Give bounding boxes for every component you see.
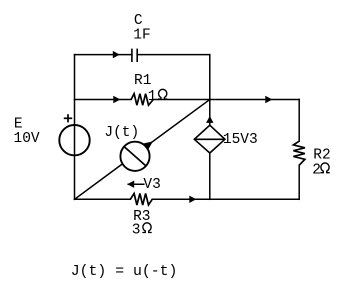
wire diagonal upper segment (current source to node A) bbox=[146, 100, 210, 147]
wire top rail right of capacitor bbox=[137, 54, 210, 56]
arrowhead top rail pointing right bbox=[113, 51, 120, 58]
wire left vertical (E branch) bbox=[74, 55, 76, 200]
arrowhead bottom rail pointing right bbox=[189, 196, 196, 203]
svg-text:V3: V3 bbox=[143, 177, 160, 193]
svg-text:1F: 1F bbox=[133, 27, 150, 43]
svg-text:J(t) = u(-t): J(t) = u(-t) bbox=[71, 264, 178, 280]
voltage source E plus sign bbox=[64, 114, 72, 122]
wire dependent source down to bottom rail bbox=[209, 153, 211, 199]
svg-text:J(t): J(t) bbox=[104, 125, 139, 141]
arrowhead dependent source branch pointing up bbox=[206, 116, 213, 123]
arrowhead rail to R2 pointing right bbox=[265, 96, 272, 103]
wire right vertical drop from top rail to node A bbox=[209, 55, 211, 100]
wire top rail left of capacitor bbox=[75, 54, 132, 56]
dependent source 15V3 diamond bbox=[194, 125, 225, 153]
svg-text:1: 1 bbox=[148, 89, 157, 105]
resistor R2 zigzag bbox=[293, 141, 305, 165]
wire diagonal lower segment (corner to current source) bbox=[75, 164, 123, 200]
V3 arrowhead pointing left bbox=[127, 181, 134, 188]
V3 arrow line bbox=[128, 183, 145, 185]
wire R1 rail right segment bbox=[153, 99, 210, 101]
wire right vertical below R2 bbox=[298, 165, 300, 199]
current source J(t) slash chord bbox=[124, 147, 146, 166]
wire right vertical above R2 bbox=[298, 100, 300, 142]
resistor R3 zigzag bbox=[130, 194, 152, 206]
wire bottom rail right of R3 bbox=[152, 198, 299, 200]
svg-text:10V: 10V bbox=[14, 131, 40, 147]
svg-text:15V3: 15V3 bbox=[223, 132, 258, 148]
svg-text:3: 3 bbox=[132, 223, 141, 239]
capacitor C plates bbox=[132, 49, 137, 62]
voltage source E circle bbox=[59, 125, 89, 155]
resistor R1 zigzag bbox=[131, 94, 153, 106]
wire bottom rail left of R3 bbox=[75, 198, 131, 200]
svg-text:R1: R1 bbox=[134, 73, 151, 89]
wire R1 rail left segment bbox=[75, 99, 132, 101]
current source J(t) circle bbox=[120, 142, 149, 171]
dependent source 15V3 diamond chord bbox=[194, 138, 225, 140]
svg-text:2: 2 bbox=[312, 163, 321, 179]
wire node A down to dependent source bbox=[209, 100, 211, 126]
arrowhead R1 rail pointing right bbox=[113, 96, 120, 103]
wire node A to right top corner bbox=[210, 99, 299, 101]
arrowhead on diagonal at current source pointing up-right bbox=[143, 141, 153, 150]
svg-text:R2: R2 bbox=[313, 147, 330, 163]
